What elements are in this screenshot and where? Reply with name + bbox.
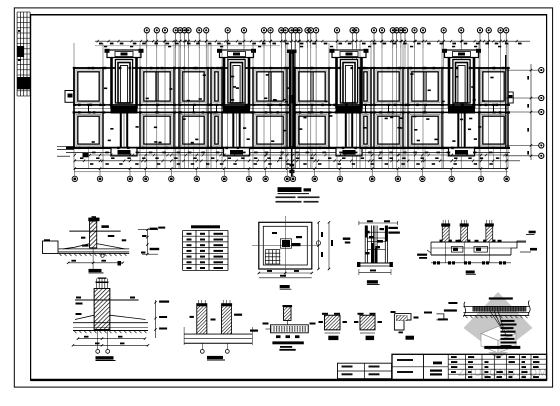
room footing x253 y68 [253,68,287,105]
detail4 title bars [272,341,303,344]
room footing x140 y112 [140,112,174,147]
detail3 slab lines [184,333,252,335]
detail3 title [207,356,223,359]
detail10 left small bracket [436,314,444,320]
detail J-1 hatch dashes under slab [59,253,62,256]
plan note line 1 [276,196,296,198]
stairwell footing at x462 [449,56,474,108]
detail8 base slab [359,262,391,264]
room footing x211 y68 [211,68,222,105]
room footing x374 y68 [374,68,403,105]
plan bottom wall thick [66,147,510,149]
detail5 base bar [328,336,338,340]
detail2 wall footing dowel bars [96,279,98,291]
top dimension number blobs [99,43,103,45]
detail2 dimension lines [78,338,145,340]
detail3 dim ticks [183,327,185,345]
selection table header [191,225,220,228]
room footing x360 y112 [360,112,371,147]
detail4 side ticks [263,323,269,325]
plan corridor mid line [74,108,508,110]
detail4 hatched column [284,307,291,321]
title block right cell texts [451,356,457,358]
stairwell top protrusion x349 [332,50,366,58]
left extension lines [57,145,74,147]
watermark logo cube left face [481,334,498,354]
detail J-1 center line below [92,248,94,272]
detail9 title [466,271,475,274]
detail9 column centerlines [445,242,447,263]
detail J-1 title [89,269,102,272]
detail J-1 left breakout box [43,241,59,254]
title block vertical dividers [423,354,425,380]
detail J-1 hatched column [90,221,97,248]
detail6 small pad section [360,315,375,330]
detail10 rebar band [472,306,526,311]
detail8 right labels [388,227,398,229]
room footing x179 y68 [179,68,208,105]
detail8 pit wall top dimension [359,222,398,224]
isolated footing plan square inner [263,226,307,265]
detail9 anchor squares row [433,261,436,264]
party wall section stem below plan [291,148,293,176]
isolated footing center column [282,240,290,247]
stairwell top protrusion x462 [445,50,479,58]
footing label blobs right of square [343,238,351,240]
selection table grid [182,231,184,271]
plan right edge wall [505,55,507,148]
detail8 pit wall right [374,226,376,263]
isolated footing dim below [259,272,312,274]
isolated footing plan square outer [259,222,312,269]
detail J-1 label blobs [101,225,109,228]
detail3 labels [190,316,194,318]
detail9 left attachment [417,254,427,256]
watermark logo cube top face [481,327,516,341]
top dimension line [95,40,530,42]
detail8 pit wall left [364,226,366,263]
room footing x140 y68 [140,68,174,105]
title block outer [392,354,547,380]
isolated footing rebar grid corner [265,249,280,251]
isolated footing title [280,285,290,288]
room footing x179 y112 [179,112,208,147]
stairwell footing at x236 [224,56,249,108]
room footing x295 y68 [295,68,329,105]
left margin signature strip table [16,12,18,96]
detail J-1 floor line [69,230,120,232]
bottom dimension line 2 [74,160,520,162]
stairwell footing at x124 [112,56,137,108]
plan corridor lower line [74,111,508,113]
grid bubbles bottom row [74,169,76,177]
detail9 column base flanges [440,240,443,243]
watermark pointer triangle [488,352,508,359]
stairwell top protrusion x124 [107,50,141,58]
right side extension lines [506,69,539,71]
detail J-1 dimension line [68,262,123,264]
plan outline top wall [74,67,508,69]
title block horizontal rows right part [448,358,546,360]
grid bubbles right column [539,68,544,73]
right vertical dimension line [530,64,532,160]
bottom dimension line 1 [88,154,508,156]
detail4 anchor squares [276,335,281,338]
detail2 hatched column [94,289,110,330]
inner border right [546,14,548,381]
detail5 small pad section [325,315,341,330]
column markers along walls [92,67,95,69]
detail J-1 right level dimension [146,230,148,255]
detail2 footing slopes [75,315,94,319]
isolated footing center lines [284,216,286,275]
room footing x295 y112 [295,112,329,147]
detail9 right stepped end [511,241,526,255]
detail7 base bar [406,336,415,340]
room footing x479 y112 [479,112,508,147]
detail8 title [367,280,378,283]
detail9 strip footing with three columns [441,223,450,226]
stairwell bottom protrusion x349 [336,148,362,156]
bottom dimension ticks and blobs [74,154,76,157]
room footing x211 y112 [211,112,222,147]
title block project name text [433,362,442,365]
detail2 footing slab [73,322,148,324]
watermark logo cube right face [498,334,516,354]
stairwell bottom protrusion x124 [111,148,137,156]
detail10 wall strip footing label [489,297,513,299]
detail10 slab lines [463,305,529,307]
isolated footing small marks [296,236,302,238]
party wall center strip [289,52,295,148]
isolated footing right dim [318,222,320,269]
detail J-1 footing slab [59,248,130,250]
detail2 rebar circles [96,350,100,354]
room footing x360 y68 [360,68,371,105]
room footing x408 y68 [408,68,442,105]
top secondary dim blobs [104,46,107,48]
watermark logo zhulong diamond [464,292,533,355]
inner border top [31,14,547,16]
left protrusion balcony [65,91,74,103]
grid line stems through plan [146,48,148,169]
wall extension lines to top dimension [73,43,75,68]
inner border left [30,14,32,381]
room footing x74 y112 [74,112,103,147]
bottom extension line [74,168,508,170]
detail8 wall rungs [367,231,385,233]
detail3 twin column section dowels [197,300,199,306]
detail3 hatched columns [197,306,207,334]
detail10 bottom black bar [484,346,520,349]
detail2 floor line [75,299,139,301]
detail4 slab with rebar hatch [271,325,309,333]
wall extension lines to bottom dimension [73,148,75,169]
plan bottom secondary line [66,152,510,154]
detail J-1 footing slope [63,244,90,249]
detail10 label rows right [501,320,515,322]
detail7 L-channel section [394,314,411,330]
detail9 long slab band [431,241,526,243]
room footing x374 y112 [374,112,403,147]
plan note line 2 [276,201,302,203]
column marker blobs on plan [73,67,76,69]
grid bubbles top row [144,28,149,33]
reviewer table left of title block [338,363,392,379]
misc dim text blobs inside plan [158,142,161,144]
right protrusion [508,92,513,103]
detail3 rebar circles [200,350,204,354]
detail2 title [96,356,114,359]
detail2 left labels [76,303,83,305]
plan corridor upper line [74,104,508,106]
detail9 dimension line [431,262,511,264]
top dimension ticks [146,40,148,43]
detail10 leader lines [490,311,500,326]
detail8 dimension below [359,271,391,273]
detail9 slab inner boxes [451,246,463,252]
detail2 hatch dashes [74,331,77,334]
plan corridor connectors [73,105,75,113]
stairwell footing at x349 [337,56,362,108]
stairwell bottom protrusion x462 [449,148,475,156]
title block left small texts [397,359,413,361]
left strip filled cells [17,46,24,57]
isolated footing second right dim [328,222,330,269]
selection table cell texts [187,233,192,235]
detail10 left labels [444,309,457,311]
detail10 hatch dashes below [465,315,468,318]
detail2 right level dimension [155,300,157,338]
detail10 right break curve [528,300,530,315]
stairwell top protrusion x236 [220,50,254,58]
room footing x408 y112 [408,112,442,147]
detail J-1 rebar circle [101,254,104,257]
detail6 base bar [366,336,375,340]
plan left edge wall [73,68,75,148]
detail10 left break curve [463,302,465,317]
inner border bottom [31,379,547,381]
stairwell bottom protrusion x236 [224,148,250,156]
detail J-1 section top cap [88,218,99,222]
room footing x74 y68 [74,68,103,105]
title block left cell divider [392,366,448,368]
room footing x253 y112 [253,112,287,147]
room footing x479 y68 [479,68,508,105]
detail8 wall black marks [366,231,370,234]
plan title text [278,187,302,192]
